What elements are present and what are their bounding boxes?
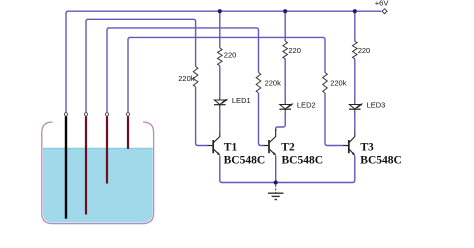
resistor 220k stage1 [193, 67, 198, 88]
resistor 220 stage2 [283, 41, 288, 59]
svg-text:220k: 220k [330, 78, 347, 87]
terminal +6V [382, 9, 387, 14]
svg-text:BC548C: BC548C [360, 155, 402, 167]
transistor T1 [208, 131, 221, 155]
wire emitter ground rail (T1 emitter to T3 emitter) [220, 156, 355, 183]
transistor T2 [264, 129, 276, 155]
LED LED2 [279, 101, 293, 114]
junction node rail-220 stage2 [283, 9, 287, 13]
probe 1 (common, black) [65, 116, 67, 218]
svg-text:220: 220 [358, 46, 371, 55]
water surface line [43, 148, 153, 150]
probe 3 [106, 116, 108, 183]
terminal probe2 [84, 113, 87, 116]
svg-text:LED3: LED3 [367, 100, 386, 109]
svg-text:LED2: LED2 [297, 100, 316, 109]
wire 220 to LED3 [354, 59, 356, 101]
svg-text:BC548C: BC548C [282, 155, 324, 167]
svg-text:LED1: LED1 [232, 96, 251, 105]
wire LED3 to T3 collector [354, 114, 356, 132]
svg-text:220k: 220k [178, 74, 195, 83]
resistor 220 stage3 [352, 41, 357, 59]
wire base2 [259, 93, 264, 146]
terminal probe4 [126, 113, 129, 116]
probe 2 [85, 116, 87, 214]
junction node emitter-ground [274, 180, 278, 184]
wire probe2 to base chain 1 [86, 19, 196, 112]
svg-text:220: 220 [224, 50, 237, 59]
svg-text:220: 220 [288, 46, 301, 55]
transistor T3 [343, 131, 355, 155]
resistor 220k stage2 [256, 73, 261, 94]
resistor 220k stage3 [323, 73, 328, 94]
wire probe4 to base chain 3 [128, 37, 325, 112]
wire collector chain 3 upper [354, 11, 356, 41]
svg-text:220k: 220k [265, 78, 282, 87]
LED LED1 [214, 97, 228, 110]
LED LED3 [349, 101, 363, 114]
wire probe3 to base chain 2 [107, 28, 259, 113]
wire LED1 to T1 collector [219, 109, 221, 131]
wire base3 [325, 93, 343, 146]
wire 220 to LED2 [284, 59, 286, 101]
wire collector chain 2 upper [284, 11, 286, 41]
junction node rail-220 stage3 [353, 9, 357, 13]
wire LED2 to T2 collector jog [276, 114, 286, 132]
junction node rail-220 stage1 [218, 9, 222, 13]
wire collector chain 1 upper [219, 11, 221, 48]
svg-text:BC548C: BC548C [224, 155, 266, 167]
wire probe1 drop and top +6V rail [66, 11, 381, 113]
wire base1 [196, 87, 208, 146]
tank outline [42, 122, 154, 224]
wire T2 emitter [275, 156, 277, 183]
probe 4 [127, 116, 129, 149]
terminal probe1 [64, 113, 67, 116]
wire 220 to LED1 [219, 66, 221, 97]
resistor 220 stage1 [218, 48, 223, 66]
tank water fill [43, 149, 153, 223]
ground [268, 185, 284, 200]
svg-text:T1: T1 [224, 141, 238, 153]
svg-text:T2: T2 [281, 141, 295, 153]
terminal probe3 [105, 113, 108, 116]
svg-text:+6V: +6V [375, 0, 389, 8]
svg-text:T3: T3 [360, 141, 374, 153]
